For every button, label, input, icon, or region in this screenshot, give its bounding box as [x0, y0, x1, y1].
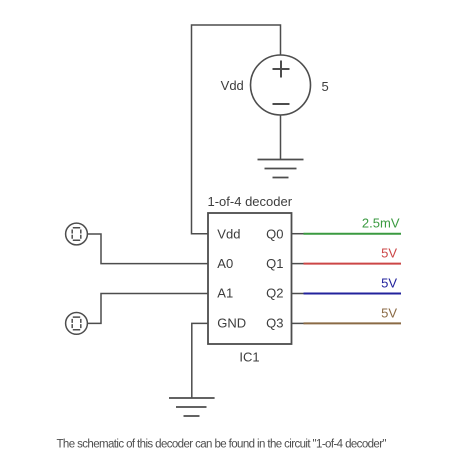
- V1 plus sign: [273, 61, 290, 78]
- pin stub Q2: [292, 293, 305, 295]
- svg-text:5: 5: [322, 79, 329, 94]
- input source 0 (bottom): [66, 313, 88, 335]
- pin stub Q0: [292, 233, 305, 235]
- wire net Q3: [304, 322, 402, 324]
- svg-text:5V: 5V: [381, 276, 397, 291]
- svg-text:5V: 5V: [381, 305, 397, 320]
- wire input0b to A1: [87, 294, 208, 324]
- svg-text:Q2: Q2: [266, 286, 283, 301]
- svg-text:Vdd: Vdd: [221, 78, 244, 93]
- V1 minus sign: [273, 103, 290, 105]
- svg-text:The schematic of this decoder: The schematic of this decoder can be fou…: [57, 438, 387, 450]
- svg-text:Q0: Q0: [266, 227, 283, 242]
- ground (under V1): [258, 160, 304, 178]
- voltage source V1: [251, 55, 311, 115]
- wire net Q2: [304, 293, 402, 295]
- pin stub Q3: [292, 322, 305, 324]
- IC1 body: [208, 213, 292, 344]
- svg-text:2.5mV: 2.5mV: [362, 216, 400, 231]
- svg-text:Q3: Q3: [266, 316, 283, 331]
- svg-text:1-of-4 decoder: 1-of-4 decoder: [208, 194, 293, 209]
- wire V1 to ground: [280, 115, 282, 159]
- pin stub Q1: [292, 263, 305, 265]
- svg-text:A0: A0: [217, 256, 233, 271]
- svg-text:Vdd: Vdd: [217, 227, 240, 242]
- wire input0 to A0: [87, 234, 208, 264]
- wire net Q1: [304, 263, 402, 265]
- wire net Q0: [304, 233, 402, 235]
- svg-text:GND: GND: [217, 316, 246, 331]
- wire Vdd net top loop: [192, 25, 281, 234]
- svg-text:Q1: Q1: [266, 256, 283, 271]
- svg-text:5V: 5V: [381, 246, 397, 261]
- svg-text:IC1: IC1: [239, 350, 259, 365]
- ground (bottom): [169, 398, 215, 416]
- svg-text:A1: A1: [217, 286, 233, 301]
- wire GND pin to ground: [192, 323, 208, 397]
- input source 0 (top): [66, 223, 88, 245]
